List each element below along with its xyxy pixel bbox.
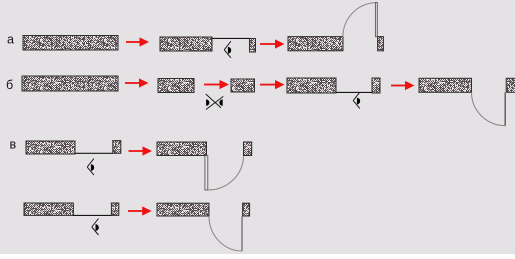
svg-text:в: в	[10, 138, 17, 152]
svg-text:б: б	[6, 78, 13, 92]
svg-text:а: а	[7, 33, 14, 47]
